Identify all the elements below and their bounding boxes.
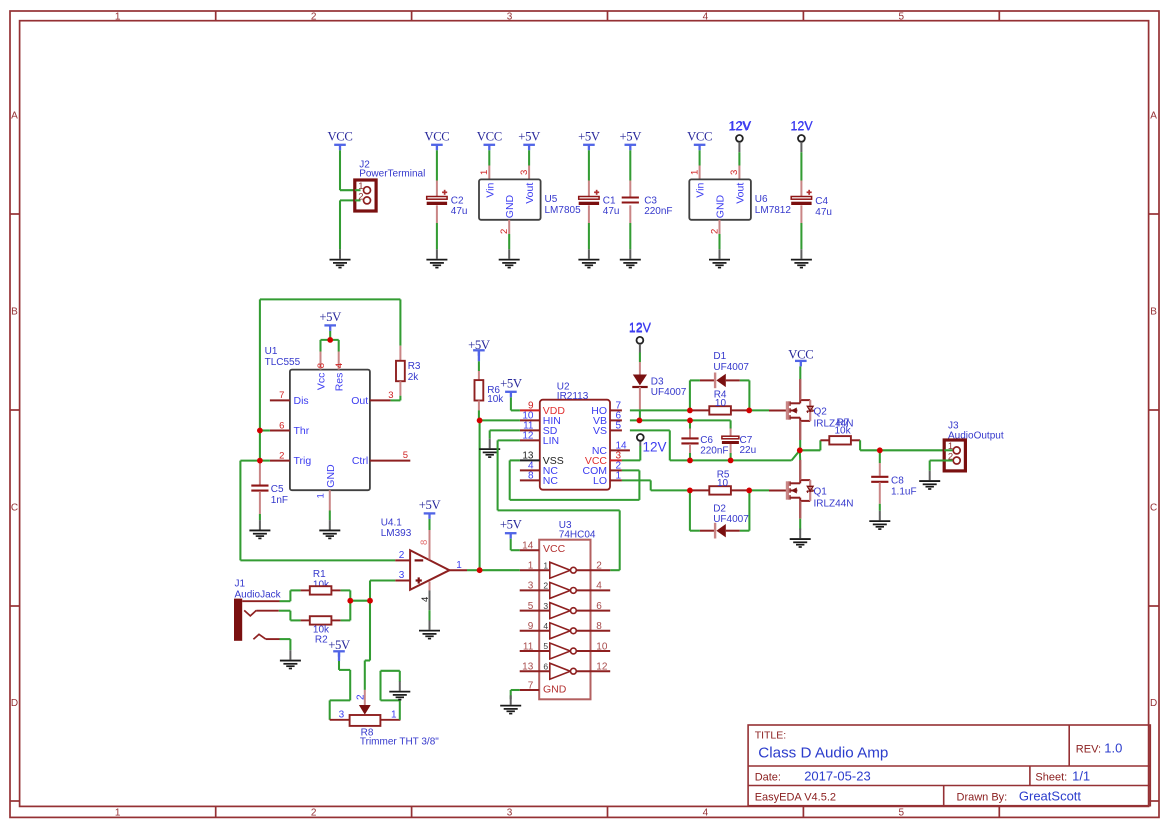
svg-text:3: 3 xyxy=(507,808,513,819)
svg-text:12V: 12V xyxy=(728,119,751,133)
svg-text:J1: J1 xyxy=(235,579,246,590)
svg-text:1/1: 1/1 xyxy=(1072,769,1090,784)
svg-text:Vin: Vin xyxy=(484,183,496,198)
svg-text:GND: GND xyxy=(325,464,337,488)
svg-text:8: 8 xyxy=(419,540,430,545)
svg-text:220nF: 220nF xyxy=(700,445,728,456)
svg-text:7: 7 xyxy=(279,390,284,401)
svg-text:22u: 22u xyxy=(740,445,757,456)
svg-text:Sheet:: Sheet: xyxy=(1035,771,1067,783)
svg-text:2: 2 xyxy=(311,808,317,819)
svg-text:R2: R2 xyxy=(315,635,328,646)
svg-text:GND: GND xyxy=(715,194,727,218)
svg-text:C4: C4 xyxy=(815,196,828,207)
svg-text:VCC: VCC xyxy=(424,129,449,143)
svg-text:C: C xyxy=(11,502,18,513)
svg-text:6: 6 xyxy=(279,420,284,431)
svg-text:1: 1 xyxy=(528,561,534,572)
svg-text:2: 2 xyxy=(279,450,284,461)
svg-text:10k: 10k xyxy=(487,394,504,405)
svg-text:D2: D2 xyxy=(713,504,726,515)
svg-text:U5: U5 xyxy=(545,194,558,205)
svg-text:1.1uF: 1.1uF xyxy=(891,487,917,498)
svg-text:5: 5 xyxy=(528,601,534,612)
svg-text:4: 4 xyxy=(703,11,709,22)
svg-text:C3: C3 xyxy=(644,195,657,206)
svg-text:Ctrl: Ctrl xyxy=(352,455,368,467)
svg-text:U6: U6 xyxy=(755,194,768,205)
svg-text:5: 5 xyxy=(616,421,622,432)
svg-text:1: 1 xyxy=(479,170,490,175)
svg-text:TITLE:: TITLE: xyxy=(755,729,787,741)
svg-text:Trimmer THT 3/8": Trimmer THT 3/8" xyxy=(360,737,439,748)
svg-text:1nF: 1nF xyxy=(271,495,288,506)
svg-text:3: 3 xyxy=(519,170,530,175)
svg-text:5: 5 xyxy=(403,450,408,461)
svg-text:47u: 47u xyxy=(815,207,832,218)
svg-text:UF4007: UF4007 xyxy=(713,514,749,525)
svg-text:C8: C8 xyxy=(891,476,904,487)
svg-text:D3: D3 xyxy=(651,377,664,388)
svg-text:Thr: Thr xyxy=(294,425,310,437)
svg-text:2017-05-23: 2017-05-23 xyxy=(804,769,871,784)
svg-text:2: 2 xyxy=(399,550,405,561)
svg-text:13: 13 xyxy=(522,662,534,673)
svg-text:PowerTerminal: PowerTerminal xyxy=(359,168,425,179)
svg-text:5: 5 xyxy=(543,641,548,651)
svg-text:9: 9 xyxy=(528,621,534,632)
svg-text:LM7805: LM7805 xyxy=(545,205,582,216)
svg-text:5: 5 xyxy=(899,808,905,819)
svg-text:2: 2 xyxy=(311,11,317,22)
svg-text:R1: R1 xyxy=(313,569,326,580)
svg-text:UF4007: UF4007 xyxy=(713,362,749,373)
svg-text:10k: 10k xyxy=(835,426,852,437)
svg-text:3: 3 xyxy=(388,390,393,401)
svg-text:10: 10 xyxy=(715,398,727,409)
svg-text:Dis: Dis xyxy=(294,395,309,407)
svg-text:2: 2 xyxy=(499,229,510,234)
svg-text:+5V: +5V xyxy=(319,310,342,324)
svg-text:Q1: Q1 xyxy=(814,487,828,498)
svg-text:R3: R3 xyxy=(408,361,421,372)
svg-text:8: 8 xyxy=(528,471,534,482)
svg-text:2: 2 xyxy=(596,561,602,572)
svg-text:VCC: VCC xyxy=(687,129,712,143)
svg-text:74HC04: 74HC04 xyxy=(559,530,596,541)
svg-text:1: 1 xyxy=(115,808,121,819)
svg-text:1: 1 xyxy=(948,441,953,452)
svg-text:5: 5 xyxy=(899,11,905,22)
svg-text:TLC555: TLC555 xyxy=(265,357,301,368)
svg-text:IRLZ44N: IRLZ44N xyxy=(814,499,854,510)
svg-text:3: 3 xyxy=(339,710,345,721)
svg-text:12: 12 xyxy=(522,431,534,442)
svg-text:+5V: +5V xyxy=(500,376,523,390)
svg-text:D1: D1 xyxy=(713,351,726,362)
svg-text:C1: C1 xyxy=(603,195,616,206)
svg-text:1: 1 xyxy=(616,471,622,482)
svg-text:+5V: +5V xyxy=(328,638,351,652)
svg-text:+5V: +5V xyxy=(419,498,442,512)
svg-text:2k: 2k xyxy=(408,372,420,383)
svg-text:2: 2 xyxy=(355,694,366,700)
svg-text:B: B xyxy=(11,306,18,317)
svg-text:11: 11 xyxy=(523,641,534,652)
svg-text:4: 4 xyxy=(334,363,345,368)
svg-text:+5V: +5V xyxy=(500,518,523,532)
svg-text:10: 10 xyxy=(717,478,729,489)
svg-text:Date:: Date: xyxy=(755,771,781,783)
svg-text:UF4007: UF4007 xyxy=(651,387,687,398)
svg-text:1.0: 1.0 xyxy=(1104,741,1122,756)
svg-text:47u: 47u xyxy=(451,206,468,217)
svg-text:7: 7 xyxy=(528,680,534,691)
svg-text:+5V: +5V xyxy=(518,129,541,143)
svg-text:Vout: Vout xyxy=(524,183,536,204)
svg-text:1: 1 xyxy=(456,560,462,571)
svg-text:+5V: +5V xyxy=(578,129,601,143)
svg-text:2: 2 xyxy=(709,229,720,234)
svg-text:3: 3 xyxy=(507,11,513,22)
svg-text:1: 1 xyxy=(543,560,548,570)
svg-text:12V: 12V xyxy=(643,440,667,455)
svg-text:GreatScott: GreatScott xyxy=(1019,789,1082,804)
svg-text:Vout: Vout xyxy=(734,183,746,204)
svg-text:12: 12 xyxy=(596,662,608,673)
svg-text:Vin: Vin xyxy=(695,183,707,198)
svg-text:D: D xyxy=(11,698,18,709)
svg-text:U1: U1 xyxy=(265,346,278,357)
svg-text:14: 14 xyxy=(522,541,534,552)
svg-text:3: 3 xyxy=(399,570,405,581)
svg-text:GND: GND xyxy=(504,194,516,218)
svg-text:6: 6 xyxy=(596,601,602,612)
svg-text:C2: C2 xyxy=(451,195,464,206)
svg-text:A: A xyxy=(11,111,18,122)
svg-text:LIN: LIN xyxy=(543,435,559,447)
svg-text:2: 2 xyxy=(358,191,363,202)
svg-text:4: 4 xyxy=(703,808,709,819)
svg-text:LM393: LM393 xyxy=(381,528,412,539)
svg-text:Class D Audio Amp: Class D Audio Amp xyxy=(758,745,888,762)
svg-text:VCC: VCC xyxy=(327,129,352,143)
svg-text:1: 1 xyxy=(689,170,700,175)
svg-text:VS: VS xyxy=(593,425,607,437)
svg-text:4: 4 xyxy=(420,597,431,602)
svg-text:1: 1 xyxy=(115,11,121,22)
svg-text:A: A xyxy=(1150,111,1157,122)
svg-text:LM7812: LM7812 xyxy=(755,205,792,216)
svg-text:VCC: VCC xyxy=(543,543,566,555)
svg-text:GND: GND xyxy=(543,684,567,696)
svg-text:12V: 12V xyxy=(790,119,813,133)
svg-text:VCC: VCC xyxy=(788,348,813,362)
svg-text:8: 8 xyxy=(316,363,327,368)
svg-text:1: 1 xyxy=(358,181,363,192)
svg-text:NC: NC xyxy=(543,475,559,487)
svg-text:10: 10 xyxy=(596,641,608,652)
svg-text:12V: 12V xyxy=(629,321,652,335)
svg-text:C: C xyxy=(1150,502,1157,513)
svg-text:B: B xyxy=(1150,306,1157,317)
svg-text:EasyEDA V4.5.2: EasyEDA V4.5.2 xyxy=(755,791,836,803)
svg-text:LO: LO xyxy=(593,475,607,487)
svg-text:1: 1 xyxy=(391,710,397,721)
svg-text:4: 4 xyxy=(543,621,548,631)
svg-text:VCC: VCC xyxy=(477,129,502,143)
svg-text:220nF: 220nF xyxy=(644,206,672,217)
svg-text:Vcc: Vcc xyxy=(315,373,327,391)
svg-text:+5V: +5V xyxy=(619,129,642,143)
svg-text:1: 1 xyxy=(316,493,327,498)
svg-text:Out: Out xyxy=(351,395,368,407)
svg-text:D: D xyxy=(1150,698,1157,709)
svg-text:REV:: REV: xyxy=(1076,743,1101,755)
svg-text:3: 3 xyxy=(528,581,534,592)
svg-text:47u: 47u xyxy=(603,206,620,217)
svg-text:Drawn By:: Drawn By: xyxy=(957,791,1008,803)
svg-text:4: 4 xyxy=(596,581,602,592)
svg-text:8: 8 xyxy=(596,621,602,632)
svg-text:Q2: Q2 xyxy=(814,407,828,418)
svg-text:Res: Res xyxy=(334,373,346,392)
svg-text:2: 2 xyxy=(543,581,548,591)
svg-text:6: 6 xyxy=(543,661,548,671)
svg-text:C5: C5 xyxy=(271,484,284,495)
svg-text:IR2113: IR2113 xyxy=(557,391,589,402)
svg-text:3: 3 xyxy=(543,601,548,611)
svg-text:3: 3 xyxy=(729,170,740,175)
svg-text:Trig: Trig xyxy=(294,455,312,467)
